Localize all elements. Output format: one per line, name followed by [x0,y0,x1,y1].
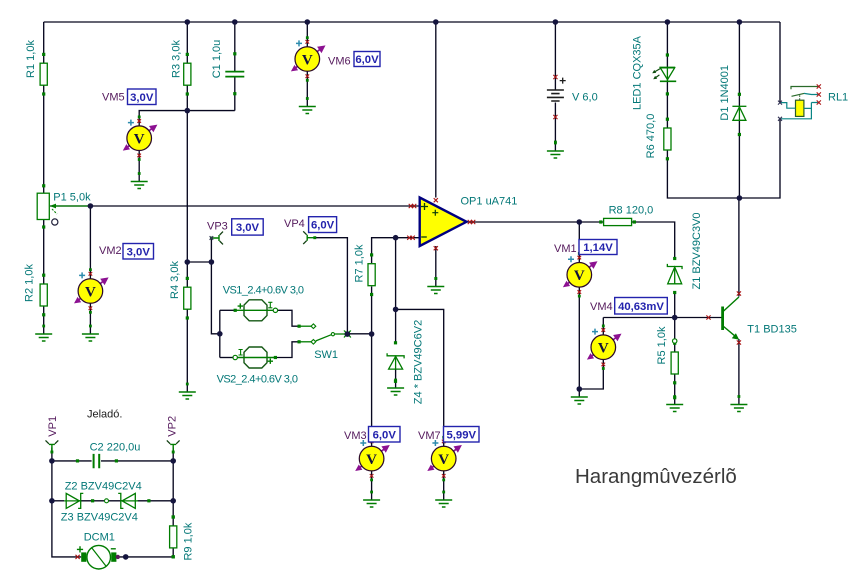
svg-text:V 6,0: V 6,0 [572,92,598,104]
svg-text:VM6: VM6 [328,56,351,68]
svg-text:R4 3,0k: R4 3,0k [169,261,181,299]
svg-text:C2 220,0u: C2 220,0u [90,442,141,454]
svg-text:R9 1,0k: R9 1,0k [182,522,194,560]
svg-text:VM3: VM3 [344,430,367,442]
svg-text:Z3 BZV49C2V4: Z3 BZV49C2V4 [61,512,138,524]
svg-text:R5 1,0k: R5 1,0k [656,326,668,364]
svg-text:D1 1N4001: D1 1N4001 [719,65,731,121]
svg-text:3,0V: 3,0V [130,92,154,104]
svg-text:SW1: SW1 [314,349,338,361]
svg-text:VM2: VM2 [99,245,122,257]
svg-text:V: V [85,284,96,300]
svg-text:Z2 BZV49C2V4: Z2 BZV49C2V4 [65,481,142,493]
svg-text:DCM1: DCM1 [84,532,115,544]
svg-text:VP2: VP2 [166,416,178,437]
svg-text:V: V [438,452,449,468]
svg-text:5,99V: 5,99V [446,429,476,441]
svg-text:RL1: RL1 [828,92,848,104]
svg-text:V: V [574,268,585,284]
svg-text:6,0V: 6,0V [311,220,335,232]
svg-text:VS1_2.4+0.6V 3,0: VS1_2.4+0.6V 3,0 [223,285,304,297]
svg-text:R7 1,0k: R7 1,0k [353,244,365,282]
svg-text:V: V [134,132,145,148]
svg-text:VM1: VM1 [554,243,577,255]
svg-text:LED1 CQX35A: LED1 CQX35A [631,35,643,110]
svg-text:Jeladó.: Jeladó. [87,409,122,421]
svg-text:1,14V: 1,14V [583,242,613,254]
svg-text:VP1: VP1 [47,416,59,437]
svg-text:Z4 * BZV49C6V2: Z4 * BZV49C6V2 [412,320,424,404]
svg-text:R3 3,0k: R3 3,0k [170,40,182,78]
svg-text:40,63mV: 40,63mV [618,301,664,313]
svg-text:VM7: VM7 [418,430,441,442]
svg-text:R6 470,0: R6 470,0 [645,114,657,159]
svg-text:6,0V: 6,0V [373,429,397,441]
svg-text:VM4: VM4 [590,301,613,313]
svg-text:V: V [598,341,609,357]
svg-text:T1 BD135: T1 BD135 [747,324,797,336]
svg-text:3,0V: 3,0V [127,246,151,258]
svg-text:R2 1,0k: R2 1,0k [23,264,35,302]
svg-text:P1 5,0k: P1 5,0k [53,192,91,204]
svg-text:V: V [302,52,313,68]
svg-text:Z1 BZV49C3V0: Z1 BZV49C3V0 [691,212,703,289]
svg-text:6,0V: 6,0V [355,54,379,66]
svg-text:VP4: VP4 [284,218,305,230]
svg-text:R8 120,0: R8 120,0 [609,205,654,217]
svg-text:VP3: VP3 [207,221,228,233]
svg-text:V: V [366,452,377,468]
svg-text:VS2_2.4+0.6V 3,0: VS2_2.4+0.6V 3,0 [217,374,298,386]
svg-text:C1 1,0u: C1 1,0u [211,40,223,79]
svg-text:3,0V: 3,0V [236,222,260,234]
svg-text:OP1 uA741: OP1 uA741 [461,196,518,208]
svg-text:VM5: VM5 [102,92,125,104]
svg-text:Harangmûvezérlõ: Harangmûvezérlõ [575,465,737,488]
svg-text:R1 1,0k: R1 1,0k [25,40,37,78]
